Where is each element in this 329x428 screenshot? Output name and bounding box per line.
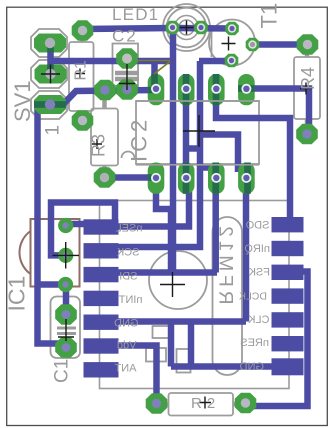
drill cross crystal [160, 272, 185, 297]
hole R3 bottom [100, 173, 109, 182]
hole row2 B [181, 173, 191, 183]
wire SDI horizontal [118, 269, 217, 276]
hole LED anode [168, 23, 176, 31]
resistor R2 body [163, 393, 240, 416]
SMD part outline [146, 348, 166, 362]
origin cross C2 [119, 64, 135, 90]
svg-text:nIRQ: nIRQ [244, 243, 270, 255]
capacitor C1 outline [51, 297, 81, 359]
pad SCK [84, 243, 119, 258]
R4 bottom pad [296, 124, 318, 144]
svg-text:LED1: LED1 [112, 5, 159, 24]
dark band row2 B [183, 163, 190, 194]
hole T1.2 [248, 40, 256, 48]
pad ANT [84, 362, 119, 377]
hole T1.1 [228, 24, 236, 32]
wire GND link right [188, 322, 195, 367]
IC1 outline (brown) [19, 219, 79, 287]
R3 bottom pad [94, 167, 116, 187]
pad nIRQ [272, 241, 304, 256]
SV1 pad 1 [34, 34, 66, 53]
wire R3.bottom to row2.A [105, 174, 151, 181]
IC2 outline [122, 101, 260, 164]
dark band row1 D [238, 85, 255, 92]
hole row2 C [211, 173, 221, 183]
svg-text:nRES: nRES [240, 337, 269, 349]
SMD part outline [153, 326, 173, 338]
wire row2.B to nSEL [118, 189, 189, 227]
svg-text:SDI: SDI [119, 271, 137, 283]
svg-text:C2: C2 [112, 27, 138, 46]
crystal circle [149, 251, 207, 309]
svg-text:SV1: SV1 [10, 80, 35, 122]
drill cross SV1.2 [41, 65, 60, 84]
hole R2 left [152, 399, 161, 408]
dark band row2 C [212, 163, 219, 194]
resistor R4 body [294, 51, 320, 127]
resistor R1 body [69, 37, 94, 117]
hole SV1.3 [45, 99, 55, 109]
origin cross C1 [58, 319, 74, 341]
hole row1 D [241, 84, 251, 94]
hole R2 right [241, 398, 250, 407]
dark band row1 C [213, 74, 220, 105]
wire row1.B to row2.B [183, 89, 190, 177]
header row2 pad D [238, 163, 255, 194]
wire branch through row2.C to SDI [200, 168, 216, 273]
hole C2 bottom [122, 85, 131, 94]
svg-text:R4: R4 [298, 67, 318, 90]
LED1 cathode pad [194, 21, 208, 35]
C1 top pad [55, 304, 77, 324]
wire row2.A jog down [156, 190, 171, 273]
hole R1 top [78, 26, 87, 35]
header row2 pad A [148, 163, 165, 194]
IC2 box top edge over pads [136, 100, 259, 102]
via 2 [61, 250, 71, 260]
wire GND-left horizontal [118, 318, 246, 325]
wire row1.A up to y61 [151, 61, 158, 80]
drill cross R2 [199, 397, 211, 409]
drill cross LED1 [180, 21, 194, 35]
LED1 anode pad [166, 21, 180, 35]
C2 top pad [116, 48, 138, 68]
header row1 pad D [238, 74, 255, 105]
hole via1 [62, 222, 68, 228]
wire to via3 [38, 281, 66, 288]
svg-text:IC1: IC1 [4, 276, 30, 312]
dark band SV1.3 [34, 101, 66, 108]
header row2 pad B [178, 163, 195, 194]
hole row1 B [181, 84, 191, 94]
pad GND-left [84, 315, 119, 330]
wire FSK to R2.right [246, 272, 308, 407]
hole R4 bottom [302, 129, 311, 138]
hole C2 top [122, 54, 132, 64]
T1 pad 2 [246, 38, 260, 52]
pad FSK [272, 265, 304, 280]
R2 right pad [235, 393, 257, 413]
wire LED1.K to T1.1 [173, 25, 232, 32]
airwire LED junction to pad [154, 62, 170, 75]
via 1 [61, 221, 71, 231]
pad SDI [84, 267, 119, 282]
svg-text:ANT: ANT [114, 363, 136, 375]
wire row1.D to R4.bot [247, 89, 310, 129]
pad CLK [272, 312, 304, 327]
svg-text:SCK: SCK [116, 247, 139, 259]
drill cross IC1/via2 [53, 242, 80, 269]
svg-text:SDO: SDO [245, 220, 269, 232]
R3 top pad [94, 80, 116, 100]
T1 pad 1 [225, 22, 239, 36]
wire T1.3 vertical to SCK [118, 61, 200, 247]
svg-text:GND: GND [240, 361, 265, 373]
wire row2.D down [243, 170, 250, 322]
hole SV1.2 [45, 69, 55, 79]
dark band row2 D [244, 163, 251, 194]
svg-text:C1: C1 [52, 359, 73, 383]
hole T1.3 [227, 56, 235, 64]
wire via3 to C1.top [63, 285, 70, 315]
hole via2 [62, 252, 68, 258]
drill cross R1 [75, 69, 85, 79]
SV1 pad 3 [34, 95, 66, 114]
svg-text:1: 1 [43, 125, 64, 136]
drill cross R3 [92, 139, 102, 149]
wire SV1.3 to R3.top row [50, 90, 156, 105]
wire branch to row2.D [200, 135, 238, 173]
svg-text:Vdd: Vdd [117, 340, 137, 352]
hole row2 A [151, 173, 161, 183]
R2 left pad [146, 393, 168, 413]
wire branch to row2.B [186, 145, 200, 152]
pad DCLK [272, 288, 304, 303]
header row1 pad C [208, 74, 225, 105]
wire via2 to nSEL corner [51, 203, 115, 256]
dark band row1 A [151, 74, 158, 88]
hole via3 [62, 281, 68, 287]
header row2 pad C [208, 163, 225, 194]
svg-text:nSEL: nSEL [116, 223, 143, 235]
hole C1 bottom [62, 343, 71, 352]
pin header SV1 silk octagons [31, 29, 67, 119]
svg-text:R3: R3 [89, 134, 109, 157]
R1 bottom pad [72, 110, 94, 130]
RFM12 module body capsule [213, 217, 243, 375]
hole row1 C [211, 84, 221, 94]
SMD part outline [177, 349, 191, 373]
drill cross T1 [222, 37, 236, 51]
wire SV1.1 to SV1.2 [47, 43, 54, 74]
drill cross IC2 [183, 115, 215, 147]
transistor T1 silk [209, 20, 255, 66]
svg-text:T1: T1 [257, 3, 282, 29]
wire row1.C to SDO [216, 90, 290, 222]
wire SV1 to C2.top to LED junction [51, 58, 177, 65]
hole SV1.1 [45, 38, 55, 48]
svg-text:R2: R2 [191, 395, 220, 412]
hole R3 top [100, 85, 109, 94]
drill cross R4 [300, 83, 312, 95]
wire SV1.3 long vertical [38, 103, 67, 344]
wire R1.top to LED1.A [83, 28, 173, 29]
dark band row2 A [148, 174, 154, 181]
hole R4 top [303, 40, 312, 49]
via 3 [61, 280, 71, 290]
T1 pad 3 [225, 54, 239, 68]
hole C1 top [62, 310, 71, 319]
C2 bottom pad [116, 79, 138, 99]
wire GND link left [168, 322, 175, 367]
svg-text:FSK: FSK [248, 267, 270, 279]
svg-text:nINT: nINT [118, 294, 142, 306]
SV1 pad 2 [35, 65, 67, 84]
capacitor C2 outline [113, 44, 140, 87]
svg-text:IC2: IC2 [127, 116, 152, 162]
hole row2 D [241, 173, 251, 183]
wire VDD to R2.left [118, 346, 157, 404]
C1 bottom pad [55, 337, 77, 357]
wire via1 to nSEL [66, 221, 86, 228]
airwire C2 to LED net [127, 60, 170, 62]
wire GND-right horizontal [171, 363, 272, 370]
wire T1.3 stub [199, 58, 232, 65]
pad GND-right [272, 358, 304, 375]
pad nRES [272, 336, 304, 351]
R1 top pad [72, 20, 94, 40]
dark band row1 B [183, 74, 190, 105]
RFM12 module outline [100, 201, 290, 389]
header row1 pad B [178, 74, 195, 105]
hole row1 A [151, 84, 161, 94]
LED1 silk circles [163, 4, 210, 51]
svg-text:GND: GND [114, 318, 139, 330]
R4 top pad [297, 34, 319, 54]
wire LED1.A down jog to SDI [170, 28, 177, 273]
svg-text:RFM12: RFM12 [215, 222, 236, 304]
wire T1.2 to R4.top [253, 41, 308, 48]
pad SDO [272, 217, 304, 232]
resistor R3 body [91, 98, 118, 172]
IC2 box bottom edge over pads [136, 164, 259, 166]
header row1 pad A [148, 74, 165, 105]
dark band SV1.1-2 [47, 43, 54, 53]
pad nSEL [84, 219, 119, 234]
pad nINT [84, 291, 119, 306]
pad VDD [84, 338, 119, 353]
hole LED cathode [197, 23, 205, 31]
hole R1 bottom [78, 116, 87, 125]
svg-text:DCLK: DCLK [239, 291, 267, 303]
svg-text:R1: R1 [73, 60, 90, 81]
svg-text:CLK: CLK [247, 314, 269, 326]
